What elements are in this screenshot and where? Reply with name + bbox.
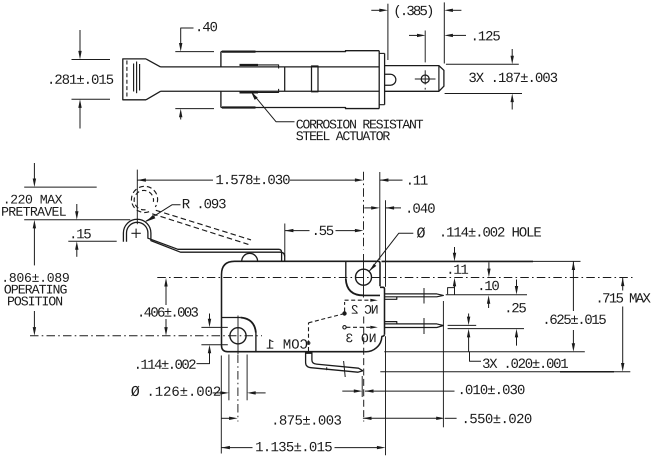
dim text .126 diameter symbol [131, 386, 139, 396]
dim .10 top arrow line [488, 262, 490, 270]
dim .114 leader bracket [197, 353, 210, 364]
mounting hole B (.126) [230, 328, 246, 344]
terminal step extension line lower [385, 336, 387, 455]
dim text .15 [72, 229, 90, 238]
free position reference line [24, 186, 97, 188]
body bottom edge [221, 108, 379, 109]
dim .010 left arrow line [342, 390, 354, 392]
lever strip bottom edge [161, 90, 380, 92]
dim .40 bracket [181, 28, 194, 45]
NC blade top extension line [446, 294, 527, 296]
lever curl center mark horizontal [131, 232, 140, 234]
dim .25 bottom arrow line [468, 314, 470, 319]
dim .114 top arrow line [209, 314, 211, 321]
leader arrow corrosion resistant [251, 92, 258, 100]
dim .187 top extension [446, 63, 519, 65]
body bottom and left edge [222, 261, 365, 351]
dim .281 bottom extension line [72, 98, 111, 100]
dim (.385) right arrow line [452, 9, 461, 11]
NC terminal blade [385, 294, 444, 297]
NC blade tick mark [423, 288, 425, 304]
terminal hole [421, 75, 429, 83]
COM terminal root collar [305, 351, 313, 354]
hole B right extension line [246, 355, 248, 401]
dim .55 line left [285, 230, 310, 232]
dim text .715 MAX [599, 293, 651, 302]
dim text .11 [409, 175, 428, 184]
dim .11 right top arrow line [454, 247, 456, 255]
dim .281 top extension line [72, 59, 111, 61]
dim .40 bottom extension [175, 108, 214, 110]
dim .25 top arrow line [488, 302, 490, 308]
blade tips extension line [442, 301, 444, 427]
terminal slot [385, 74, 396, 85]
dim text .806±.089 [4, 273, 68, 282]
hole B boss corner arc [241, 318, 256, 333]
hole A boss bottom line [363, 294, 381, 296]
dim .281 top arrow line [79, 30, 81, 53]
lever tip dashed edge [126, 61, 128, 99]
hole A leader line [369, 233, 413, 271]
dim .406 line top [165, 284, 167, 305]
NO dashed line to terminal [346, 326, 370, 328]
lever inner edge [127, 222, 282, 261]
dim text .550±.020 [465, 414, 532, 424]
dim .020 left arrow line [468, 336, 470, 352]
dim text POSITION [8, 296, 62, 305]
dim (.385) left arrow line [371, 9, 380, 11]
dim .11 right bottom arrow line [454, 285, 456, 295]
dim .625 top arrow [572, 261, 575, 270]
dim text .040 [408, 203, 434, 213]
end cap bottom [379, 104, 384, 106]
dim .550 left arrow [363, 417, 372, 420]
dim 1.578 left extension line [136, 170, 138, 225]
dim .15 bottom arrow line [76, 248, 78, 257]
lever curl free position outer dashed [131, 186, 157, 212]
dim text .875±.003 [274, 415, 341, 425]
end cap top [379, 52, 384, 54]
lever curl free position inner dashed [134, 190, 153, 209]
dim 1.578 line right [290, 179, 355, 181]
dim text .126±.002 [150, 386, 220, 396]
dim text (.385) [396, 5, 432, 18]
dim R .093 leader line [146, 205, 181, 222]
body left edge upper [220, 52, 222, 67]
dim text .40 [198, 22, 217, 32]
lever tip hatch 3 [139, 64, 141, 91]
dim .187 bottom extension [445, 93, 522, 95]
hole B centerline extension [237, 355, 239, 422]
dim .806 bottom arrow line [33, 311, 35, 329]
NO blade base [385, 322, 397, 324]
COM terminal lower edge [306, 352, 363, 373]
dim .126 right arrow line [255, 392, 265, 394]
dim text .55 [315, 226, 333, 235]
hole A leader arrow [369, 264, 376, 272]
body top edge extension line thin [533, 260, 581, 262]
dim .010 line [365, 390, 455, 392]
dim .11 arrow [380, 178, 389, 181]
NO blade top extension line [448, 324, 477, 326]
dim text .281±.015 [50, 74, 113, 84]
inner slot thick bottom [240, 91, 259, 93]
common contact small circle [307, 342, 310, 345]
hole B vertical crosshair [237, 316, 239, 355]
dim .040 line [386, 207, 402, 209]
end cap outer edge [384, 53, 386, 104]
dim .126 left arrow line [213, 392, 221, 394]
dim .125 extension line [424, 31, 426, 63]
operating position reference line [24, 219, 130, 221]
dim text PRETRAVEL [2, 207, 66, 216]
dim 1.578 left arrow [137, 178, 146, 181]
NO dashed arrow [370, 326, 378, 329]
dim text hole diameter symbol [417, 227, 425, 237]
dim .715 line top [622, 278, 624, 291]
NC dashed line to terminal [345, 299, 371, 301]
dim .715 top arrow [621, 278, 624, 287]
dim 1.135 line right [335, 447, 378, 449]
body top edge extension line thick [382, 260, 534, 262]
NO blade tick mark [423, 318, 425, 334]
leader line corrosion [251, 92, 295, 122]
body bottom extension line right [384, 351, 585, 353]
plunger bar [312, 66, 319, 92]
dim (.385) left extension [387, 4, 389, 60]
dim .187 top arrow line [511, 49, 513, 57]
lever tip taper [146, 59, 161, 100]
slot edge thick top [222, 50, 256, 52]
body right edge extension line [379, 172, 381, 260]
dim .10 bottom arrow line [516, 280, 518, 289]
dim text .10 [481, 281, 499, 291]
dim text .11 right [450, 265, 469, 274]
dim .406 line bottom [165, 319, 167, 329]
lever tip hatch 2 [136, 62, 138, 94]
body top and right edge [235, 261, 381, 286]
NC extension elbow [448, 288, 455, 295]
dim .55 line right [336, 230, 356, 232]
dim 1.578 line left [137, 179, 213, 181]
hole B bottom tangent line [201, 344, 227, 346]
dim .15 top arrow line [76, 204, 78, 213]
dim .40 top extension [175, 51, 214, 53]
label corrosion resistant [296, 120, 423, 129]
dim .625 line bottom [572, 330, 574, 346]
dim 1.135 line left [221, 447, 252, 449]
dim .126 right arrow [247, 391, 256, 394]
dim .010 right arrow [365, 389, 374, 392]
terminal hole horizontal centerline [415, 78, 436, 80]
inner slot top edge [240, 65, 279, 69]
dim .020 right arrow line [516, 336, 518, 346]
terminal step extension line [385, 200, 387, 286]
COM terminal upper edge [312, 352, 363, 371]
dim text .114±.002 [137, 359, 196, 369]
NC contact dot [343, 312, 346, 315]
body left edge extension line [220, 356, 222, 454]
dim 1.135 left arrow [221, 446, 230, 449]
dim .220 top arrow line [33, 163, 35, 181]
hole A vertical crosshair [363, 254, 365, 298]
NO terminal blade [385, 324, 444, 328]
COM tip level extension thick part [560, 371, 614, 373]
dim .875 left arrow line [221, 417, 229, 419]
dim text 3X .187±.003 [469, 73, 557, 83]
COM terminal tick mark [344, 361, 346, 377]
NC dashed arrow [370, 299, 378, 302]
dim text .625±.015 [546, 315, 606, 325]
hole B boss right edge [255, 333, 257, 352]
mirrored label NC 2 [352, 305, 378, 314]
upper horizontal centerline [157, 277, 632, 279]
lever free position top dashed edge [156, 210, 251, 240]
dim text OPERATING [4, 285, 66, 294]
dim .11 line [380, 179, 403, 181]
dim .040 left arrow line [364, 207, 371, 209]
lever free position bottom dashed edge [152, 214, 248, 245]
dim text 1.135±.015 [256, 442, 332, 452]
hole A centerline extended down [363, 317, 365, 422]
lever strip top edge [161, 66, 380, 68]
mounting hole A (.114) [356, 269, 372, 285]
body top edge [221, 50, 379, 53]
lever tip hatch 1 [133, 64, 135, 92]
end cap inner edge [378, 51, 380, 109]
plunger button [242, 253, 258, 261]
hole A boss corner arc [346, 279, 364, 296]
hole B left extension line [228, 355, 230, 401]
dim .625 line top [572, 261, 574, 311]
COM terminal mid tick [326, 367, 328, 370]
common spring dashed line [308, 323, 310, 351]
dim .55 extension line [284, 224, 286, 257]
common to NC dashed diagonal [309, 314, 345, 323]
terminal hole vertical centerline [424, 70, 426, 84]
dim .40 bottom arrow line [180, 115, 182, 120]
dim .550 right stub [445, 417, 457, 419]
dim .55 left arrow [285, 229, 294, 232]
terminal blade top view [385, 66, 444, 92]
inner slot thick top [240, 64, 259, 66]
slot edge thick bottom [222, 106, 256, 108]
dim text .114±.002 HOLE [442, 227, 541, 237]
NC blade base [385, 297, 397, 300]
mirrored label COM 1 [267, 339, 308, 349]
COM terminal tip extension line [361, 376, 363, 397]
NC dashed vertical [344, 302, 346, 312]
dim .550 line [363, 417, 437, 419]
dim R .093 leader arrow [146, 215, 155, 222]
dim .020 leader elbow [470, 352, 482, 362]
dim text .125 [474, 31, 500, 41]
COM tip level extension line [380, 371, 630, 373]
hole B top tangent line [201, 326, 227, 328]
label steel actuator [296, 131, 390, 140]
lever lower reference line [68, 240, 116, 242]
mirrored label NO 3 [346, 333, 375, 342]
top view lever tip outline [123, 59, 146, 100]
NO contact circle [343, 326, 346, 329]
hole A boss left edge [345, 262, 347, 279]
dim text .010±.030 [461, 385, 525, 395]
terminal hole centerline dash below [424, 88, 426, 90]
dim text 3X .020±.001 [483, 359, 568, 369]
lever curl center mark vertical [135, 229, 137, 238]
dim (.385) right extension [443, 2, 445, 63]
lever end inside body [284, 67, 286, 91]
dim text 1.578±.030 [216, 175, 289, 185]
dim .220/.806 shared arrow line [33, 226, 35, 265]
dim text .406±.003 [140, 307, 198, 317]
dim text R .093 [183, 199, 226, 209]
body left edge lower [220, 91, 222, 107]
lever outer edge [123, 219, 284, 261]
body terminal step edge [380, 287, 385, 334]
dim .187 bottom arrow line [511, 102, 513, 110]
dim .125 left arrow line [409, 34, 417, 36]
inner slot bottom edge [240, 89, 279, 93]
NO blade bottom extension line [448, 328, 524, 330]
dim .040 right arrow [386, 206, 395, 209]
dim text .220 MAX [6, 195, 62, 204]
lower horizontal centerline [30, 335, 262, 337]
dim text .25 [508, 303, 526, 313]
body bottom right notch [365, 334, 385, 351]
hole A centerline up [363, 172, 365, 250]
dim .715 line bottom [622, 307, 624, 366]
dim .281 bottom arrow line [79, 106, 81, 129]
dim .125 right arrow line [452, 34, 466, 36]
hole B boss top edge [222, 317, 241, 319]
terminal blade chamfer facet line [438, 66, 440, 92]
